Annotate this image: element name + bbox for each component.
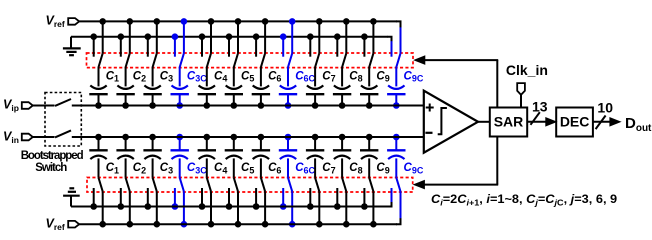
- switch SC9 (top DAC switch): [361, 18, 377, 67]
- label bus width 10: [597, 99, 613, 115]
- capacitor C7 (top array): [306, 67, 336, 109]
- DAC switch array box (top, red dashed): [87, 53, 414, 68]
- capacitor C6C (bottom array): [279, 134, 316, 178]
- port Vip (I/O pentagon): [22, 102, 33, 109]
- op-amp U1 (comparator): [424, 91, 478, 153]
- capacitor C2 (bottom array): [116, 134, 146, 178]
- capacitor C1 (top array): [89, 67, 119, 109]
- capacitor C1 (bottom array): [89, 134, 119, 178]
- bootstrapped switch box (black dashed): [45, 93, 81, 147]
- node Vref (bottom supply label): [46, 216, 65, 232]
- svg-text:SAR: SAR: [494, 114, 524, 130]
- wire SAR feedback (top) with arrow: [415, 56, 499, 108]
- switch SC6C (top DAC switch): [280, 18, 296, 67]
- capacitor C8 (top array): [333, 67, 363, 109]
- capacitor C2 (top array): [116, 67, 146, 109]
- svg-text:Bootstrapped: Bootstrapped: [21, 150, 84, 162]
- switch SC3b (bottom DAC switch): [145, 178, 161, 228]
- switch SC7b (bottom DAC switch): [307, 178, 323, 228]
- port Clk_in (pentagon): [517, 83, 525, 95]
- wire 10-bit output bus: [593, 116, 620, 130]
- wire Vref top rail: [79, 20, 397, 22]
- port Vin (I/O pentagon): [22, 134, 33, 141]
- label bus width 13: [532, 98, 548, 114]
- capacitor C9 (top array): [360, 67, 390, 109]
- capacitor C3C (top array): [171, 67, 208, 109]
- capacitor C4 (bottom array): [198, 134, 228, 178]
- capacitor C6C (top array): [279, 67, 316, 109]
- switch SC9C (top DAC switch): [387, 21, 401, 67]
- switch SC9b (bottom DAC switch): [361, 178, 377, 228]
- wire Vip bus (to comparator +): [33, 105, 424, 107]
- switch SC3 (top DAC switch): [145, 18, 161, 67]
- node Dout (output label): [625, 115, 652, 134]
- node Clk_in (label): [506, 62, 548, 78]
- svg-text:Ci=2Ci+1, i=1~8, Cj=CjC, j=3,: Ci=2Ci+1, i=1~8, Cj=CjC, j=3, 6, 9: [431, 193, 617, 208]
- wire comparator output: [478, 121, 490, 123]
- svg-text:13: 13: [532, 98, 548, 114]
- capacitor C9C (bottom array): [387, 134, 424, 178]
- switch SC6Cb (bottom DAC switch): [280, 178, 296, 228]
- switch SC5 (top DAC switch): [226, 18, 242, 67]
- DEC decoder block: [556, 108, 593, 137]
- switch SC5b (bottom DAC switch): [226, 178, 242, 228]
- capacitor C8 (bottom array): [333, 134, 363, 178]
- switch SC4 (top DAC switch): [199, 18, 215, 67]
- switch (bootstrapped, Vin): [55, 130, 71, 137]
- wire Clk_in to SAR: [520, 95, 522, 108]
- wire gnd top rail: [71, 36, 388, 38]
- switch SC9Cb (bottom DAC switch): [387, 178, 401, 225]
- node Vip (input label): [3, 97, 19, 113]
- switch SC1b (bottom DAC switch): [90, 178, 106, 228]
- wire gnd bottom rail: [71, 206, 388, 208]
- capacitor C6 (bottom array): [252, 134, 282, 178]
- switch SC3C (top DAC switch): [172, 18, 188, 67]
- switch SC1 (top DAC switch): [90, 18, 106, 67]
- port Vref (bottom, I/O pentagon): [68, 221, 79, 228]
- svg-text:Switch: Switch: [35, 162, 67, 174]
- capacitor C3C (bottom array): [171, 134, 208, 178]
- switch SC6b (bottom DAC switch): [253, 178, 269, 228]
- switch SC8b (bottom DAC switch): [334, 178, 350, 228]
- DAC switch array box (bottom, red dashed): [87, 178, 413, 193]
- capacitor C6 (top array): [252, 67, 282, 109]
- switch SC4b (bottom DAC switch): [199, 178, 215, 228]
- svg-text:10: 10: [597, 99, 613, 115]
- svg-text:DEC: DEC: [560, 114, 590, 130]
- node Vref (top supply label): [46, 14, 65, 30]
- label Bootstrapped Switch: [21, 150, 84, 174]
- switch (bootstrapped, Vip): [55, 99, 71, 106]
- capacitor C5 (top array): [225, 67, 255, 109]
- capacitor C5 (bottom array): [225, 134, 255, 178]
- switch SC2b (bottom DAC switch): [118, 178, 134, 228]
- capacitor C3 (bottom array): [143, 134, 173, 178]
- capacitor C3 (top array): [143, 67, 173, 109]
- label capacitor sizing formula: [431, 193, 617, 208]
- node Vin (input label): [3, 129, 19, 145]
- capacitor C9C (top array): [387, 67, 424, 109]
- switch SC8 (top DAC switch): [334, 18, 350, 67]
- wire SAR feedback (bottom) with arrow: [414, 137, 498, 189]
- svg-text:Clk_in: Clk_in: [506, 62, 548, 78]
- switch SC2 (top DAC switch): [118, 18, 134, 67]
- wire Vref bottom rail: [79, 223, 397, 225]
- switch SC6 (top DAC switch): [253, 18, 269, 67]
- capacitor C9 (bottom array): [360, 134, 390, 178]
- capacitor C4 (top array): [198, 67, 228, 109]
- capacitor C7 (bottom array): [306, 134, 336, 178]
- wire 13-bit bus SAR to DEC: [527, 112, 556, 126]
- SAR logic block: [490, 108, 527, 137]
- ground (bottom-left): [63, 188, 80, 206]
- port Vref (top, I/O pentagon): [68, 18, 79, 25]
- ground (top-left): [63, 37, 81, 56]
- switch SC7 (top DAC switch): [307, 18, 323, 67]
- wire Vin bus (to comparator -): [33, 136, 424, 138]
- switch SC3Cb (bottom DAC switch): [172, 178, 188, 228]
